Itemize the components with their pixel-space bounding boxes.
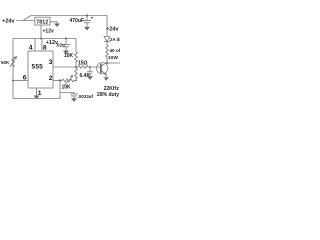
svg-text:.02u: .02u (56, 42, 65, 47)
svg-text:4: 4 (29, 44, 33, 51)
wire pin 6 (13, 80, 28, 82)
svg-text:8: 8 (43, 44, 47, 51)
svg-text:7812: 7812 (36, 20, 48, 26)
wire left branch down (12, 39, 14, 99)
ground emitter (103, 77, 109, 80)
wire pin 3 output (53, 66, 76, 68)
svg-text:10W: 10W (108, 55, 118, 61)
wire pin 2 (53, 80, 62, 82)
svg-text:15Ω: 15Ω (78, 61, 88, 67)
node junction pin2 (59, 79, 61, 81)
node collector junction (106, 62, 108, 64)
svg-text:10K: 10K (62, 85, 72, 91)
node junction pin3 (75, 66, 77, 68)
resistor 15ohm horizontal (76, 66, 100, 69)
resistor 10K vertical (75, 52, 78, 67)
svg-text:40 ohm: 40 ohm (110, 48, 121, 53)
potentiometer 50K (12, 57, 15, 67)
ground under 7812 (54, 24, 60, 28)
svg-text:555: 555 (32, 64, 44, 71)
wire 7812 ground pin (50, 22, 57, 24)
svg-text:2: 2 (49, 75, 53, 82)
wire pin4 stub (34, 39, 36, 52)
svg-text:2A diode: 2A diode (110, 37, 120, 42)
svg-text:470uF: 470uF (70, 18, 84, 24)
ground pin 1 (34, 96, 40, 100)
diode D1 2A (104, 37, 110, 42)
wire branch to timing cap (60, 93, 74, 94)
svg-text:+: + (91, 15, 94, 20)
wire +12v rail (13, 38, 76, 40)
svg-text:+24v: +24v (106, 27, 119, 33)
svg-text:+24v: +24v (2, 19, 15, 25)
capacitor .0033uf (70, 93, 78, 95)
capacitor 470uF (86, 14, 88, 16)
svg-text:+12v: +12v (43, 29, 54, 35)
node junction pin6 (12, 80, 14, 82)
svg-text:3: 3 (49, 59, 53, 66)
wire output right (107, 62, 120, 64)
IC U2 555 (28, 51, 53, 88)
capacitor base bypass (89, 67, 91, 72)
wire right column upper (106, 16, 108, 37)
wire top rail (31, 15, 107, 17)
node junction pot right (75, 80, 77, 82)
potentiometer 10K horizontal (62, 79, 76, 82)
wire pin8 stub (41, 39, 43, 52)
capacitor .02u (65, 37, 67, 39)
wire 7812 output down (40, 25, 42, 39)
resistor 6.4K vertical (75, 69, 78, 81)
node junction 7812 output (40, 38, 42, 40)
wire 6.4K connection (75, 67, 77, 69)
wire diode to resistor (106, 42, 108, 46)
svg-text:10K: 10K (64, 53, 74, 59)
svg-text:.0033uf: .0033uf (78, 94, 94, 99)
svg-text:50K: 50K (1, 60, 10, 65)
wire diagonal branch to top rail (23, 16, 31, 21)
resistor 40ohm vertical (106, 45, 109, 63)
wire pin 1 (36, 88, 38, 96)
wire bottom rail (13, 81, 60, 99)
svg-text:28% duty: 28% duty (97, 92, 119, 98)
transistor Q1 (97, 62, 108, 73)
regulator U1 7812 (35, 17, 50, 25)
wire input to 7812 (16, 20, 35, 22)
wire right rail corner down to 10K (75, 39, 77, 53)
node base junction (89, 66, 91, 68)
